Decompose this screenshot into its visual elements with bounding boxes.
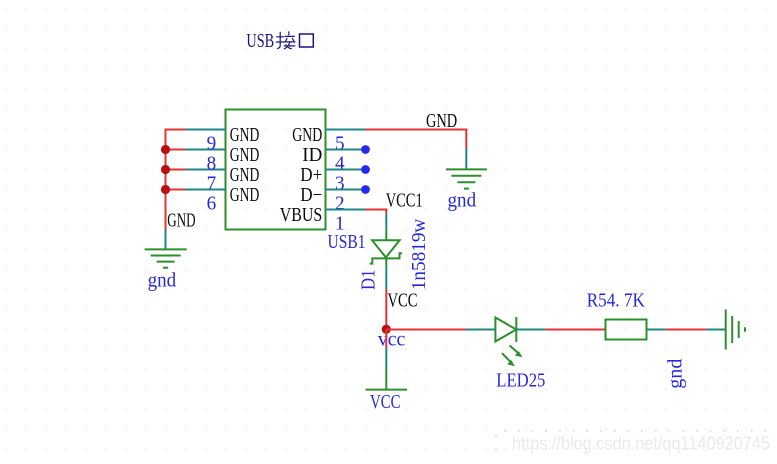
watermark dots row — [495, 430, 767, 451]
wire below junction red — [385, 330, 387, 349]
svg-text:9: 9 — [207, 132, 217, 154]
svg-text:GND: GND — [230, 184, 260, 206]
svg-text:VCC1: VCC1 — [386, 190, 423, 212]
wire D- stub teal — [326, 189, 366, 191]
svg-text:ID: ID — [302, 144, 322, 166]
junction dot left pin7 — [161, 165, 170, 174]
noconnect dot D- — [361, 185, 370, 194]
wire pin6 teal segment — [185, 189, 226, 191]
svg-text:1n5819w: 1n5819w — [408, 218, 430, 290]
svg-text:USB: USB — [246, 30, 274, 52]
wire pin7 red segment — [166, 169, 186, 171]
svg-text:vcc: vcc — [378, 329, 405, 351]
wire below junction teal — [385, 348, 387, 369]
wire resistor to ground red — [666, 329, 706, 331]
svg-text:GND: GND — [230, 164, 260, 186]
noconnect dot D+ — [361, 165, 370, 174]
LED arrow 2 — [502, 353, 515, 366]
svg-text:7: 7 — [207, 172, 217, 194]
wire GND pin5 teal segment — [326, 129, 366, 131]
svg-text:VBUS: VBUS — [280, 204, 323, 226]
junction dot left pin6 — [161, 185, 170, 194]
wire D+ stub teal — [326, 169, 366, 171]
LED arrow 1 — [510, 345, 523, 357]
svg-text:gnd: gnd — [665, 359, 687, 389]
wire pin6 red segment — [166, 189, 186, 191]
noconnect dot ID — [361, 145, 370, 154]
svg-text:GND: GND — [426, 110, 457, 132]
wire pin7 teal segment — [185, 169, 226, 171]
svg-text:D−: D− — [300, 184, 322, 206]
svg-text:6: 6 — [207, 192, 217, 214]
svg-text:VCC: VCC — [370, 391, 401, 413]
wire vcc row red segment — [386, 329, 466, 331]
power symbol VCC bar — [366, 369, 408, 389]
wire left vertical red bus to ground — [165, 129, 167, 230]
svg-text:USB1: USB1 — [328, 231, 366, 253]
svg-text:3: 3 — [335, 172, 345, 194]
wire VBUS vertical teal to diode — [385, 214, 387, 230]
svg-text:VCC: VCC — [388, 289, 418, 311]
wire to right ground teal — [706, 329, 725, 331]
ground symbol left — [145, 249, 187, 267]
junction dot vcc node — [382, 325, 391, 334]
svg-text:GND: GND — [230, 144, 260, 166]
wire VBUS red segment to corner — [366, 209, 388, 211]
LED diode LED25 — [495, 317, 516, 342]
title USB接口 — [246, 30, 313, 52]
svg-text:https://blog.csdn.net/qq114092: https://blog.csdn.net/qq1140920745 — [512, 434, 770, 454]
ground symbol top right — [446, 169, 487, 188]
wire LED to resistor red — [545, 329, 605, 331]
component U: USB connector box USB1 — [226, 110, 326, 230]
svg-text:GND: GND — [167, 210, 195, 232]
wire pin9 teal segment — [185, 129, 226, 131]
wire below diode red to junction — [385, 289, 387, 330]
wire GND vertical red — [465, 129, 467, 149]
svg-text:4: 4 — [335, 152, 345, 174]
svg-text:GND: GND — [292, 124, 322, 146]
wire pin8 teal segment — [185, 149, 226, 151]
wire ID stub teal — [326, 149, 366, 151]
wire VBUS teal segment — [326, 209, 366, 211]
svg-text:2: 2 — [335, 192, 345, 214]
resistor R5 4.7K — [606, 320, 647, 340]
wire below diode teal — [385, 265, 387, 289]
wire vcc row teal to LED — [466, 329, 495, 331]
wire pin9 red segment — [165, 129, 186, 131]
junction dot left pin8 — [161, 145, 170, 154]
wire pin8 red segment — [166, 149, 186, 151]
svg-text:LED25: LED25 — [496, 370, 545, 392]
ground symbol right rotated — [726, 310, 745, 350]
svg-text:D+: D+ — [300, 164, 322, 186]
svg-text:GND: GND — [230, 124, 260, 146]
wire GND vertical teal — [465, 148, 467, 169]
wire GND net red segment to corner — [366, 129, 468, 131]
svg-text:R54. 7K: R54. 7K — [587, 290, 646, 312]
wire LED to resistor teal — [516, 329, 545, 331]
wire left vertical teal segment — [165, 229, 167, 249]
svg-text:gnd: gnd — [148, 270, 177, 292]
wire resistor to ground teal — [647, 329, 667, 331]
svg-text:5: 5 — [335, 132, 345, 154]
diode D1 1n5819w — [370, 230, 402, 266]
svg-text:8: 8 — [207, 152, 217, 174]
wire VBUS vertical red — [385, 209, 387, 214]
svg-text:D1: D1 — [358, 270, 380, 291]
svg-text:gnd: gnd — [448, 190, 477, 212]
